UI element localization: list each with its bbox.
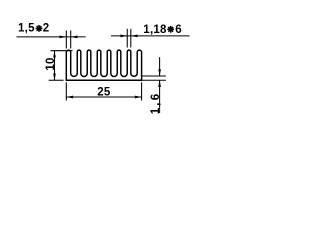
- dimension 1,18*6 : dimension line with underline: [111, 35, 190, 37]
- dimension 1,5*2 : right arrowhead: [71, 36, 78, 39]
- dimension 25 : dimension line: [66, 96, 141, 98]
- svg-text:1,6: 1,6: [150, 92, 162, 115]
- dimension 1,18*6 : left extension line: [126, 29, 128, 48]
- dimension 1,18*6 : right arrowhead: [131, 35, 138, 38]
- svg-text:2: 2: [43, 23, 49, 35]
- dimension 25 : left extension line: [65, 82, 67, 100]
- heatsink extrusion profile outline (8 fins on base plate): [66, 50, 141, 80]
- svg-text:1,18: 1,18: [143, 24, 167, 36]
- svg-text:6: 6: [175, 24, 181, 36]
- svg-text:10: 10: [45, 57, 57, 70]
- dimension 1,6 : lower arrowhead pointing up: [158, 80, 161, 87]
- dimension 1,18*6 : asterisk star: [167, 26, 174, 33]
- dimension 1,6 : lower extension line: [142, 79, 166, 81]
- dimension 10 : bottom arrowhead: [53, 73, 56, 80]
- svg-text:25: 25: [97, 86, 111, 98]
- dimension 25 : left arrowhead: [66, 96, 73, 99]
- dimension 1,18*6 : left arrowhead: [120, 35, 127, 38]
- dimension 25 : right arrowhead: [135, 96, 142, 99]
- dimension 1,5*2 : dimension line: [17, 36, 86, 38]
- dimension 10 : top extension line: [51, 50, 73, 52]
- svg-text:1,5: 1,5: [18, 23, 35, 35]
- dimension 1,5*2 : left arrowhead: [60, 36, 67, 39]
- dimension 1,6 : upper extension line: [142, 75, 166, 77]
- dimension 10 : top arrowhead: [53, 51, 56, 58]
- dimension 1,5*2 : left extension line: [65, 31, 67, 49]
- dimension 1,6 : lower dimension line: [159, 80, 161, 113]
- dimension 1,6 : upper arrowhead pointing down: [158, 69, 161, 76]
- dimension 1,5*2 : asterisk star: [36, 25, 43, 32]
- dimension 25 : right extension line: [141, 82, 143, 100]
- dimension 1,18*6 : right extension line: [130, 29, 132, 48]
- dimension 10 : bottom extension line: [49, 79, 64, 81]
- dimension 1,5*2 : right extension line: [70, 31, 72, 49]
- dimension 10 : dimension line: [54, 51, 56, 80]
- dimension 1,6 : upper dimension line: [159, 57, 161, 76]
